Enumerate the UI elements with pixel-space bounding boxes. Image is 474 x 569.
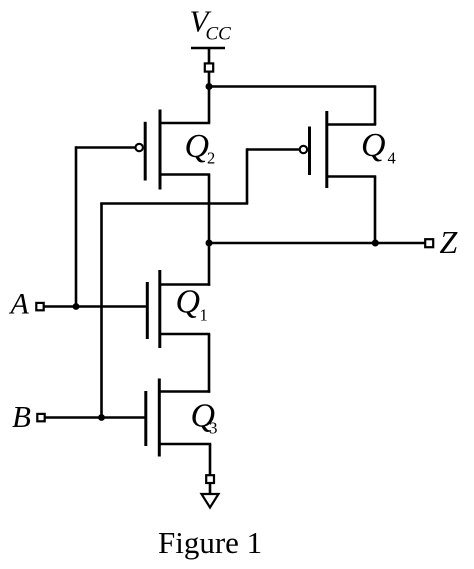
svg-text:4: 4: [388, 149, 396, 168]
svg-text:Q: Q: [176, 284, 201, 321]
svg-text:Q: Q: [361, 127, 386, 164]
svg-text:1: 1: [200, 306, 208, 325]
svg-text:Figure 1: Figure 1: [158, 525, 262, 560]
svg-text:2: 2: [207, 149, 215, 168]
svg-text:CC: CC: [206, 24, 232, 45]
svg-text:B: B: [12, 399, 31, 434]
svg-text:Z: Z: [440, 224, 459, 260]
svg-text:A: A: [9, 288, 30, 321]
svg-text:Q: Q: [185, 128, 210, 165]
svg-text:3: 3: [209, 419, 218, 438]
